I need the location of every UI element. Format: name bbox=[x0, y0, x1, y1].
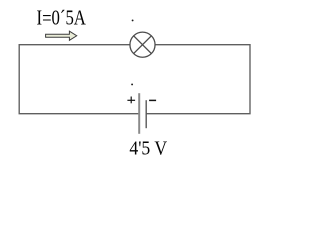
wire top-left + left + bottom-left to battery long plate bbox=[19, 45, 139, 114]
svg-text:4'5 V: 4'5 V bbox=[129, 137, 167, 159]
battery B1 short (-) plate bbox=[145, 100, 147, 128]
minus sign bbox=[149, 99, 156, 101]
svg-text:I=0´5A: I=0´5A bbox=[37, 8, 86, 30]
plus sign bbox=[127, 97, 135, 104]
lamp L1 (circle with X) bbox=[130, 32, 155, 57]
battery B1 long (+) plate bbox=[138, 93, 140, 134]
stray dot above battery bbox=[131, 83, 133, 85]
wire from battery short plate + bottom-right + right + top-right to lamp bbox=[146, 45, 250, 114]
stray dot above lamp bbox=[132, 19, 134, 21]
current direction arrow bbox=[46, 31, 77, 40]
